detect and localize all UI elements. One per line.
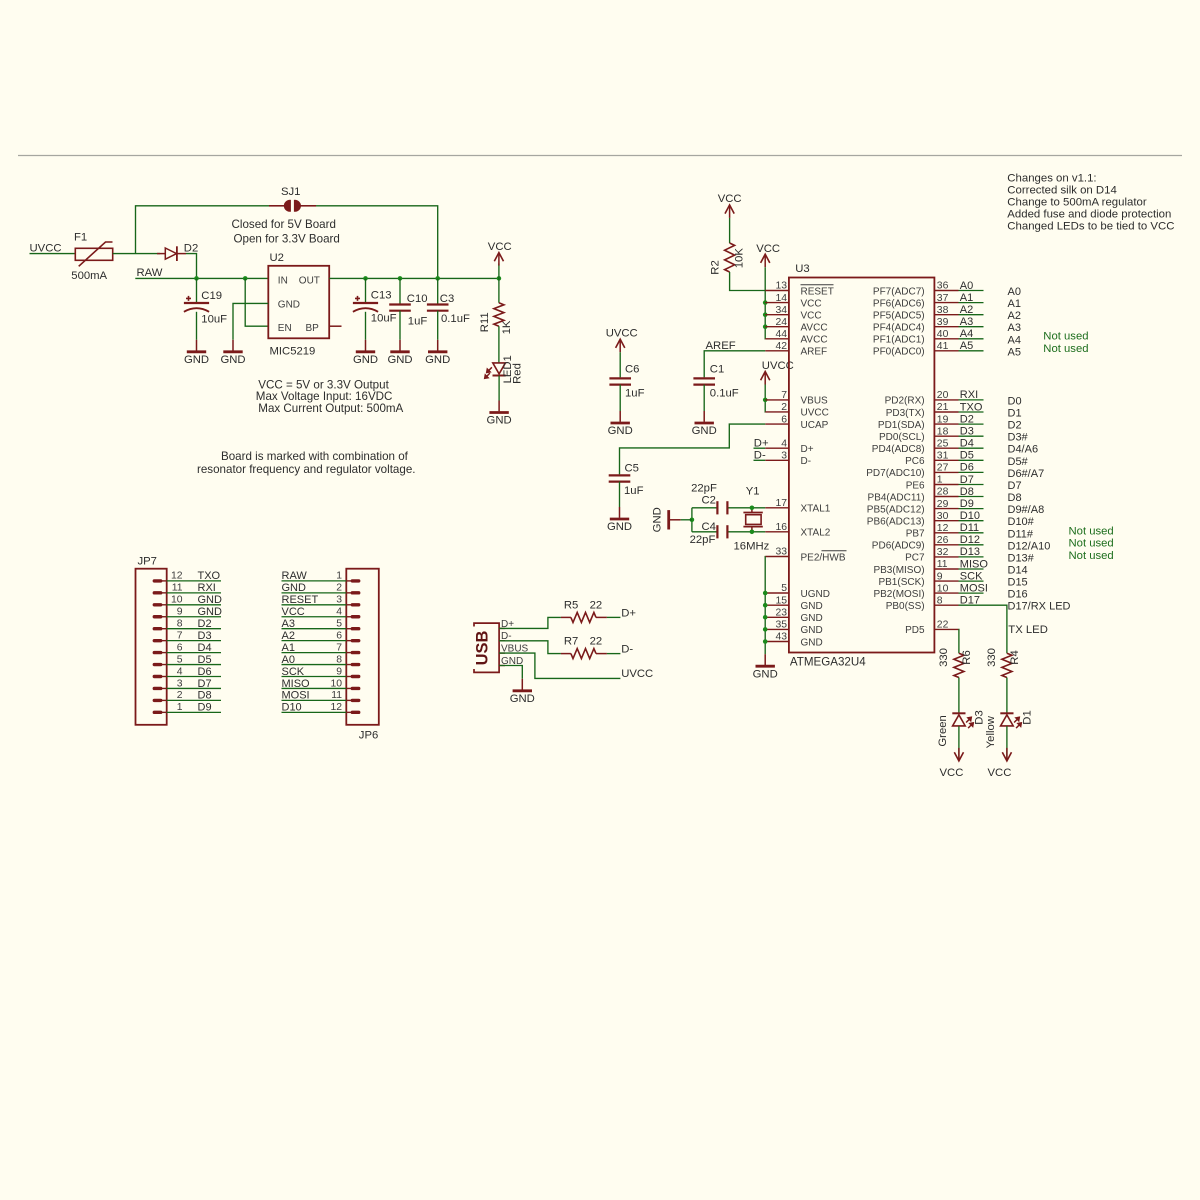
ground symbol below USB — [510, 679, 535, 705]
svg-text:D9: D9 — [960, 498, 974, 510]
svg-text:VBUS: VBUS — [801, 396, 829, 407]
svg-text:38: 38 — [937, 305, 949, 316]
svg-text:10K: 10K — [733, 248, 745, 269]
svg-text:PD3(TX): PD3(TX) — [886, 408, 925, 419]
wire junction up to SJ1 rail — [136, 206, 270, 254]
svg-text:ATMEGA32U4: ATMEGA32U4 — [790, 655, 866, 668]
U3 left pin 43 (GND) — [765, 632, 822, 649]
svg-text:A2: A2 — [960, 304, 973, 316]
svg-text:D8: D8 — [960, 486, 974, 498]
JP6 pin 6 (A2) — [282, 630, 361, 642]
svg-text:330: 330 — [938, 648, 950, 667]
svg-text:RAW: RAW — [282, 570, 308, 582]
svg-text:XTAL1: XTAL1 — [801, 504, 831, 515]
svg-text:PE2/HWB: PE2/HWB — [801, 552, 846, 563]
wire R4 to LED D1 — [1006, 678, 1008, 714]
JP7 pin 5 (D5) — [153, 654, 221, 666]
svg-text:Changes on v1.1:: Changes on v1.1: — [1007, 172, 1096, 184]
svg-text:5: 5 — [336, 619, 342, 630]
svg-text:7: 7 — [781, 390, 787, 401]
U3 left pin 14 (VCC) — [765, 293, 821, 310]
svg-text:17: 17 — [775, 498, 787, 509]
JP6 pin 11 (MOSI) — [282, 690, 361, 702]
svg-text:1: 1 — [937, 475, 943, 486]
svg-text:D12: D12 — [960, 534, 980, 546]
svg-text:GND: GND — [198, 606, 223, 618]
capacitor C2 — [717, 501, 727, 514]
svg-text:24: 24 — [775, 317, 787, 328]
svg-text:12: 12 — [171, 571, 183, 582]
wire C13 drop — [365, 278, 367, 302]
svg-text:UVCC: UVCC — [606, 328, 638, 340]
svg-text:C6: C6 — [625, 364, 639, 376]
svg-text:VCC: VCC — [756, 243, 780, 255]
svg-text:D6: D6 — [960, 462, 974, 474]
svg-text:AVCC: AVCC — [801, 323, 828, 334]
JP6 pin 4 (VCC) — [282, 606, 361, 618]
svg-text:PF5(ADC5): PF5(ADC5) — [873, 311, 925, 322]
svg-text:Not used: Not used — [1069, 538, 1114, 550]
svg-text:23: 23 — [775, 608, 787, 619]
svg-text:UVCC: UVCC — [801, 408, 829, 419]
svg-text:D+: D+ — [801, 444, 814, 455]
svg-text:PB6(ADC13): PB6(ADC13) — [867, 517, 925, 528]
junction UGND pin 5 — [763, 591, 768, 596]
svg-text:D10: D10 — [960, 510, 980, 522]
svg-text:10uF: 10uF — [371, 313, 397, 325]
svg-text:EN: EN — [278, 323, 292, 334]
svg-text:9: 9 — [336, 666, 342, 677]
svg-text:41: 41 — [937, 341, 949, 352]
svg-text:A0: A0 — [960, 280, 973, 292]
svg-text:8: 8 — [336, 654, 342, 665]
U3 right pin 12 (D11) — [906, 522, 1034, 540]
svg-text:GND: GND — [608, 425, 633, 437]
resistor R5 — [561, 616, 571, 618]
svg-text:7: 7 — [177, 630, 183, 641]
U3 left pin 5 (UGND) — [765, 583, 830, 600]
svg-text:31: 31 — [937, 451, 949, 462]
svg-text:8: 8 — [937, 595, 943, 606]
svg-text:PB5(ADC12): PB5(ADC12) — [867, 504, 925, 515]
JP7 pin 8 (D2) — [153, 618, 221, 630]
svg-text:12: 12 — [937, 523, 949, 534]
svg-text:9: 9 — [177, 607, 183, 618]
svg-text:5: 5 — [177, 654, 183, 665]
svg-text:10: 10 — [330, 678, 342, 689]
svg-text:PC7: PC7 — [905, 553, 925, 564]
U3 right pin 10 (MOSI) — [873, 582, 1027, 600]
wire R2 to RESET pin — [730, 272, 766, 291]
svg-text:16MHz: 16MHz — [734, 541, 770, 553]
svg-text:PD2(RX): PD2(RX) — [885, 396, 925, 407]
wire D1 to VCC — [1006, 726, 1008, 761]
junction VBUS pin 7 — [763, 398, 768, 403]
svg-text:UGND: UGND — [801, 589, 830, 600]
svg-text:D7: D7 — [198, 678, 212, 690]
junction GND pin 35 — [763, 627, 768, 632]
U3 left pin 7 (VBUS) — [765, 390, 828, 407]
wire VCC to R11 — [498, 278, 500, 302]
svg-text:GND: GND — [184, 354, 209, 366]
svg-text:D10#: D10# — [1008, 516, 1035, 528]
svg-text:D2: D2 — [198, 618, 212, 630]
svg-text:4: 4 — [177, 666, 183, 677]
separator line — [18, 155, 1182, 157]
svg-text:Changed LEDs to be tied to VCC: Changed LEDs to be tied to VCC — [1007, 221, 1174, 233]
U3 right pin 39 (A3) — [873, 316, 1021, 334]
svg-text:D10: D10 — [282, 702, 302, 714]
svg-text:OUT: OUT — [299, 275, 320, 286]
svg-text:RESET: RESET — [282, 594, 319, 606]
U3 right pin 40 (A4) — [873, 328, 1021, 346]
svg-text:18: 18 — [937, 426, 949, 437]
U3 left pin 3 (D-) — [765, 451, 811, 468]
junction OUT-C3-SJ1 — [435, 276, 440, 281]
svg-text:D17/RX LED: D17/RX LED — [1008, 601, 1071, 613]
regulator U2 box — [268, 266, 329, 339]
svg-text:A0: A0 — [282, 654, 295, 666]
svg-text:11: 11 — [937, 559, 948, 570]
svg-text:GND: GND — [282, 582, 307, 594]
capacitor C19 — [184, 296, 209, 312]
U3 right pin 38 (A2) — [873, 304, 1021, 322]
svg-text:AVCC: AVCC — [801, 335, 828, 346]
JP6 pin 1 (RAW) — [282, 570, 361, 582]
svg-text:14: 14 — [775, 293, 787, 304]
wire D- stub at U3 — [754, 459, 766, 461]
wire C19 drop — [196, 278, 198, 302]
wire R7 to D- label — [607, 653, 621, 655]
capacitor C6 — [609, 378, 631, 384]
U3 right pin 11 (MISO) — [873, 558, 1027, 576]
JP7 pin 7 (D3) — [153, 630, 221, 642]
U3 left pin 15 (GND) — [765, 595, 822, 612]
svg-text:PB1(SCK): PB1(SCK) — [878, 577, 924, 588]
JP7 pin 11 (RXI) — [153, 582, 221, 594]
svg-text:C2: C2 — [702, 495, 716, 507]
wire XTAL1 net — [692, 507, 718, 509]
svg-text:2: 2 — [336, 583, 342, 594]
junction XTAL2 crystal — [750, 530, 755, 535]
U3 left pin 23 (GND) — [765, 608, 822, 625]
wire C6 to ground — [619, 385, 621, 411]
svg-text:GND: GND — [753, 668, 778, 680]
JP7 pin 4 (D6) — [153, 666, 221, 678]
svg-text:AREF: AREF — [706, 340, 736, 352]
IC U3 box — [789, 278, 935, 653]
wire VCC to U3 VCC AVCC pins — [764, 267, 766, 339]
power symbol VCC below D3 — [940, 748, 964, 779]
svg-text:16: 16 — [775, 522, 787, 533]
svg-text:19: 19 — [937, 414, 949, 425]
power symbol VCC above R2 — [718, 193, 742, 218]
ground symbol below C13 — [353, 340, 378, 366]
capacitor C13 — [353, 296, 378, 312]
svg-text:15: 15 — [775, 595, 787, 606]
LED LED1 red — [485, 363, 506, 378]
svg-text:26: 26 — [937, 535, 949, 546]
U3 right pin 9 (SCK) — [878, 570, 1027, 588]
junction VCC pin 14 — [763, 300, 768, 305]
ground symbol left of crystal — [651, 507, 680, 532]
JP7 pin 9 (GND) — [153, 606, 222, 618]
svg-text:PD1(SDA): PD1(SDA) — [878, 420, 925, 431]
wire UCAP to C5 — [620, 424, 766, 474]
svg-text:GND: GND — [607, 521, 632, 533]
U3 right pin 32 (D13) — [905, 546, 1035, 564]
svg-text:PC6: PC6 — [905, 456, 925, 467]
junction OUT-C13 — [363, 276, 368, 281]
svg-text:PF0(ADC0): PF0(ADC0) — [873, 347, 925, 358]
junction RAW-EN — [243, 276, 248, 281]
ground symbol below C10 — [387, 340, 412, 366]
svg-text:MIC5219: MIC5219 — [270, 345, 316, 357]
svg-text:32: 32 — [937, 547, 949, 558]
svg-text:A4: A4 — [960, 328, 973, 340]
wire C3 drop — [437, 278, 439, 303]
svg-text:SCK: SCK — [282, 666, 305, 678]
ground symbol below C3 — [425, 340, 450, 366]
capacitor C3 — [427, 305, 449, 311]
wire F1 to junction — [113, 253, 136, 255]
svg-text:Red: Red — [512, 363, 524, 384]
U2 pin stub BP unconnected — [329, 325, 341, 327]
U3 right pin 29 (D9) — [867, 498, 1044, 516]
U3 right pin 27 (D6) — [866, 462, 1044, 480]
crystal Y1 — [743, 508, 762, 532]
U3 left pin 34 (VCC) — [765, 305, 821, 322]
U3 left pin 24 (AVCC) — [765, 317, 827, 334]
power symbol VCC below D1 — [988, 748, 1012, 779]
wire USB D+ to R5 — [499, 617, 561, 628]
svg-text:PF4(ADC4): PF4(ADC4) — [873, 323, 925, 334]
U3 left pin 33 (PE2/HWB) — [765, 547, 846, 564]
junction OUT-VCC — [497, 276, 502, 281]
svg-text:GND: GND — [801, 637, 823, 648]
JP6 pin 9 (SCK) — [282, 666, 361, 678]
wire R6 to LED D3 — [958, 678, 960, 714]
U3 right pin 1 (D7) — [906, 474, 1022, 492]
svg-text:D3: D3 — [974, 710, 986, 724]
svg-text:C10: C10 — [407, 293, 428, 305]
svg-text:Added fuse and diode protectio: Added fuse and diode protection — [1007, 209, 1171, 221]
U3 left pin 6 (UCAP) — [765, 414, 828, 431]
svg-text:A1: A1 — [282, 642, 295, 654]
svg-text:36: 36 — [937, 281, 949, 292]
svg-text:D8: D8 — [1008, 492, 1022, 504]
svg-text:22pF: 22pF — [690, 534, 716, 546]
svg-text:22: 22 — [590, 599, 603, 611]
svg-text:RXI: RXI — [960, 389, 978, 401]
U3 right pin 20 (RXI) — [885, 389, 1022, 407]
svg-text:21: 21 — [937, 402, 949, 413]
svg-text:2: 2 — [781, 402, 787, 413]
resistor R2 — [725, 243, 735, 272]
svg-text:TXO: TXO — [198, 570, 221, 582]
svg-text:D2: D2 — [1008, 420, 1022, 432]
svg-text:RXI: RXI — [198, 582, 216, 594]
svg-text:SCK: SCK — [960, 570, 983, 582]
svg-text:BP: BP — [306, 323, 320, 334]
svg-text:D3: D3 — [198, 630, 212, 642]
JP6 pin 2 (GND) — [282, 582, 361, 594]
svg-text:12: 12 — [330, 702, 342, 713]
wire D+ stub at U3 — [754, 447, 766, 449]
svg-text:VCC: VCC — [801, 311, 822, 322]
svg-text:MOSI: MOSI — [282, 690, 310, 702]
svg-text:Corrected silk on D14: Corrected silk on D14 — [1007, 184, 1117, 196]
svg-text:C19: C19 — [201, 290, 222, 302]
wire PD5 to R6 — [958, 629, 960, 653]
wire U2 GND pin to ground — [233, 303, 268, 339]
svg-text:PE6: PE6 — [906, 480, 925, 491]
junction crystal caps to ground — [690, 518, 695, 523]
svg-text:VCC: VCC — [488, 241, 512, 253]
JP6 pin 8 (A0) — [282, 654, 361, 666]
svg-text:D12/A10: D12/A10 — [1008, 540, 1051, 552]
svg-text:1uF: 1uF — [408, 315, 428, 327]
wire EN loop to U2 — [245, 278, 268, 326]
svg-text:Green: Green — [937, 715, 949, 746]
svg-text:C13: C13 — [371, 290, 392, 302]
svg-text:TXO: TXO — [960, 401, 983, 413]
svg-text:1: 1 — [336, 571, 342, 582]
U3 left pin 2 (UVCC) — [765, 402, 829, 419]
svg-text:Not used: Not used — [1069, 526, 1114, 538]
svg-text:Change to 500mA regulator: Change to 500mA regulator — [1007, 197, 1147, 209]
svg-text:D9#/A8: D9#/A8 — [1008, 504, 1045, 516]
net AREF wire — [704, 351, 765, 378]
svg-text:VCC: VCC — [988, 767, 1012, 779]
junction VCC pin 24 — [763, 324, 768, 329]
svg-text:Open for 3.3V Board: Open for 3.3V Board — [234, 232, 340, 245]
svg-text:GND: GND — [801, 601, 823, 612]
diode D2 — [157, 246, 186, 261]
svg-text:D6: D6 — [198, 666, 212, 678]
wire LED1 to ground — [498, 376, 500, 401]
U3 left pin 44 (AVCC) — [765, 329, 827, 346]
wire R5 to D+ label — [607, 616, 621, 618]
svg-text:44: 44 — [775, 329, 787, 340]
svg-text:Max Current Output: 500mA: Max Current Output: 500mA — [258, 402, 403, 415]
svg-text:30: 30 — [937, 511, 949, 522]
svg-text:RESET: RESET — [801, 286, 834, 297]
U3 left pin 42 (AREF) — [765, 341, 827, 358]
JP6 pin 12 (D10) — [282, 702, 361, 714]
svg-text:Closed for 5V Board: Closed for 5V Board — [232, 218, 336, 231]
svg-text:VCC: VCC — [940, 767, 964, 779]
junction GND pin 23 — [763, 615, 768, 620]
svg-text:resonator frequency and regula: resonator frequency and regulator voltag… — [197, 463, 416, 476]
junction VCC pin 34 — [763, 312, 768, 317]
svg-text:7: 7 — [336, 642, 342, 653]
svg-text:R6: R6 — [961, 650, 973, 664]
svg-text:0.1uF: 0.1uF — [441, 313, 470, 325]
svg-text:22: 22 — [937, 620, 949, 631]
wire VCC riser — [498, 264, 500, 279]
JP7 pin 12 (TXO) — [153, 570, 221, 582]
wire UVCC to VBUS and UVCC pins — [764, 385, 766, 412]
svg-text:A5: A5 — [960, 340, 973, 352]
svg-text:20: 20 — [937, 390, 949, 401]
svg-text:D4: D4 — [198, 642, 212, 654]
svg-text:35: 35 — [775, 620, 787, 631]
wire VCC to R2 — [729, 218, 731, 243]
svg-text:JP6: JP6 — [359, 729, 378, 741]
svg-text:4: 4 — [781, 438, 787, 449]
svg-text:1uF: 1uF — [625, 387, 645, 399]
U3 pin 22 (PD5) — [905, 620, 958, 637]
svg-text:PF6(ADC6): PF6(ADC6) — [873, 298, 925, 309]
svg-text:10uF: 10uF — [201, 313, 227, 325]
svg-text:C5: C5 — [625, 463, 639, 475]
wire crystal left leg — [691, 508, 693, 532]
svg-text:D4/A6: D4/A6 — [1008, 444, 1039, 456]
wire ground to crystal leg — [681, 519, 692, 521]
wire USB GND to ground — [499, 666, 522, 679]
svg-text:D5: D5 — [960, 450, 974, 462]
svg-text:D5: D5 — [198, 654, 212, 666]
svg-text:6: 6 — [177, 642, 183, 653]
svg-text:IN: IN — [278, 275, 288, 286]
svg-text:D15: D15 — [1008, 577, 1028, 589]
power symbol UVCC above U3 VBUS — [761, 360, 794, 384]
svg-text:GND: GND — [651, 507, 663, 532]
svg-text:R2: R2 — [709, 260, 721, 274]
U3 right pin 37 (A1) — [873, 292, 1021, 310]
svg-text:PB2(MOSI): PB2(MOSI) — [873, 589, 924, 600]
svg-text:GND: GND — [198, 594, 223, 606]
svg-text:PB3(MISO): PB3(MISO) — [873, 565, 924, 576]
ground symbol below C5 — [607, 507, 632, 533]
svg-text:D3#: D3# — [1008, 432, 1029, 444]
solder jumper SJ1 — [269, 200, 316, 212]
U3 right pin 41 (A5) — [873, 340, 1021, 358]
USB pin GND — [499, 656, 523, 667]
svg-text:MISO: MISO — [960, 558, 989, 570]
resistor R7 — [561, 653, 571, 655]
U3 right pin 26 (D12) — [872, 534, 1051, 552]
svg-text:PB4(ADC11): PB4(ADC11) — [868, 492, 925, 503]
svg-text:33: 33 — [775, 547, 787, 558]
svg-text:D1: D1 — [1022, 710, 1034, 724]
svg-text:1K: 1K — [501, 320, 513, 334]
U3 left pin 13 (RESET) — [765, 281, 834, 298]
JP6 pin 3 (RESET) — [282, 594, 361, 606]
svg-text:D8: D8 — [198, 690, 212, 702]
svg-text:GND: GND — [510, 693, 535, 705]
svg-text:R4: R4 — [1009, 650, 1021, 664]
JP7 pin 3 (D7) — [153, 678, 221, 690]
junction XTAL1 crystal — [750, 506, 755, 511]
svg-text:D13: D13 — [960, 546, 980, 558]
wire USB D- to R7 — [499, 641, 561, 654]
svg-text:A3: A3 — [960, 316, 973, 328]
wire C5 to ground — [619, 482, 621, 507]
svg-text:43: 43 — [775, 632, 787, 643]
svg-text:GND: GND — [387, 354, 412, 366]
resistor R11 — [494, 303, 504, 326]
wire D17 to R4 — [959, 605, 1007, 653]
svg-text:PF7(ADC7): PF7(ADC7) — [873, 286, 925, 297]
U3 left pin 35 (GND) — [765, 620, 822, 637]
svg-text:A1: A1 — [960, 292, 973, 304]
svg-text:D0: D0 — [1008, 395, 1022, 407]
wire UVCC to C6 — [619, 352, 621, 377]
svg-text:1uF: 1uF — [624, 485, 644, 497]
svg-text:42: 42 — [775, 341, 787, 352]
